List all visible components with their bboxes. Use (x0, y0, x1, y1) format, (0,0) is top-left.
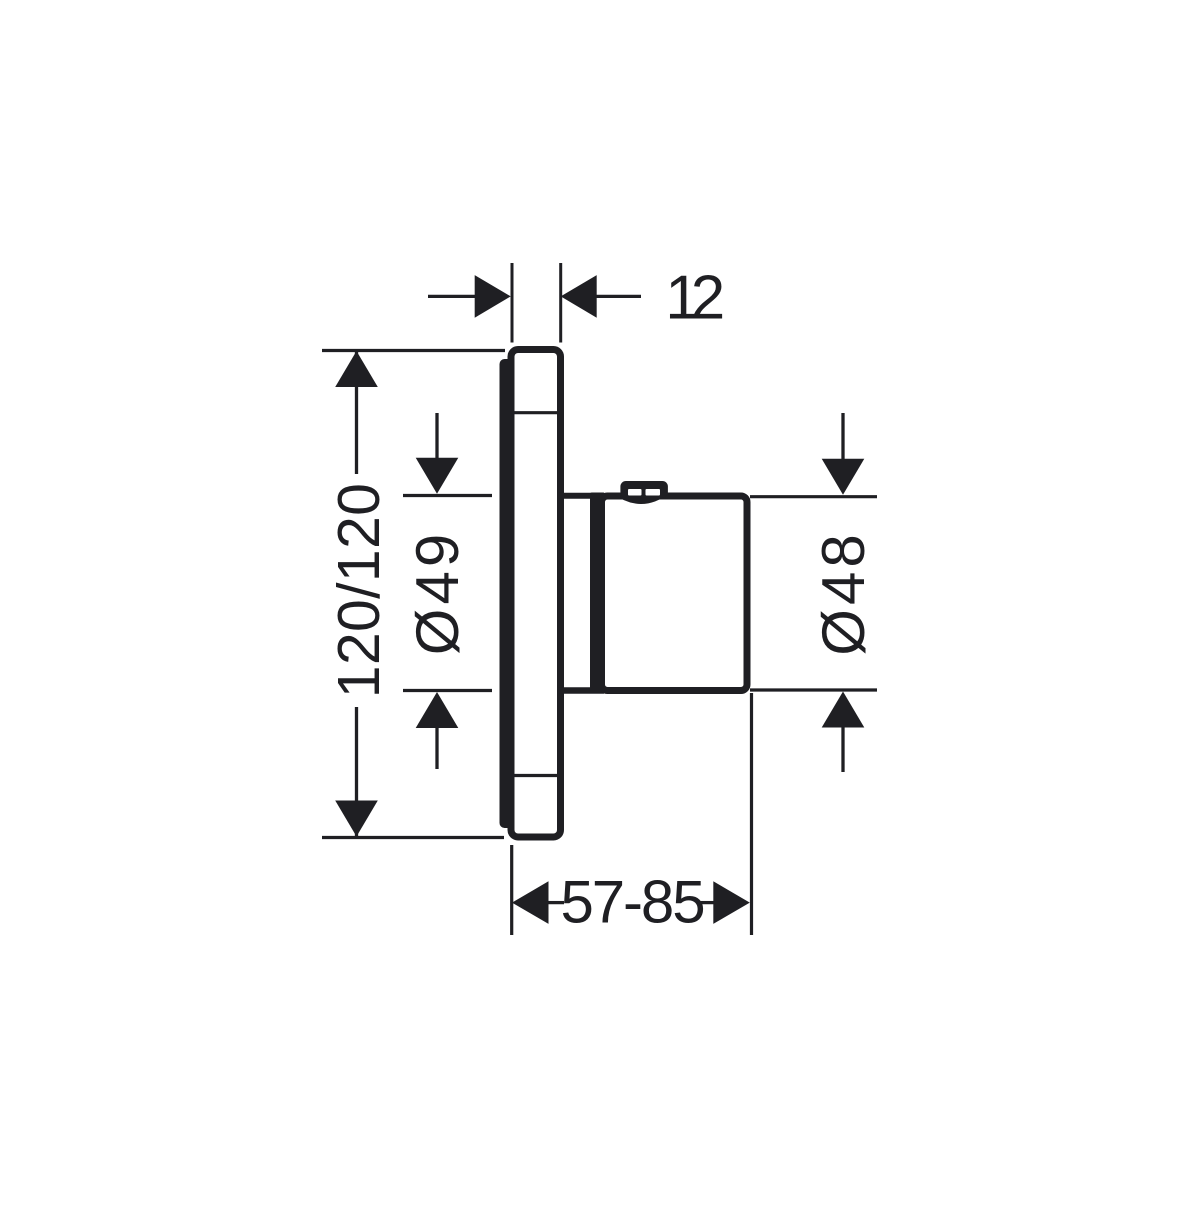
dim 120/120 line lower (355, 707, 358, 836)
dim D49 line upper (435, 413, 438, 460)
plate inner line top (514, 411, 558, 414)
ext line D48 top (750, 495, 877, 498)
dim 120/120 arrow down (335, 801, 378, 837)
dim 57-85 right stub (699, 901, 714, 904)
button tab (620, 481, 668, 498)
dim 57-85 arrow left (512, 881, 549, 924)
dim D48 line upper (841, 413, 844, 461)
dim 12 right arrow (561, 275, 597, 318)
extension line 12 right (559, 263, 562, 343)
knob top dip under button (612, 493, 670, 504)
svg-text:Ø49: Ø49 (404, 530, 471, 655)
svg-text:120/120: 120/120 (326, 483, 392, 698)
dim 12 right tail (596, 295, 641, 298)
dim D48 arrow up (822, 692, 865, 728)
sleeve bottom line (559, 687, 604, 694)
dim 120/120 line upper (355, 351, 358, 474)
dim 57-85 arrow right (713, 881, 750, 924)
dim D49 arrow up (416, 692, 459, 728)
dim 12 left tail (428, 295, 476, 298)
dim D49 arrow down (416, 458, 459, 494)
svg-text:Ø48: Ø48 (810, 530, 877, 655)
dim 12 left arrow (475, 275, 511, 318)
escutcheon plate outline (511, 350, 561, 838)
extension line 120/120 top (322, 349, 505, 352)
ext line D49 top (403, 494, 492, 497)
extension line 120/120 bottom (322, 836, 504, 839)
dim 120/120 arrow up (335, 351, 378, 387)
svg-text:57-85: 57-85 (561, 869, 704, 936)
plate inner line bottom (514, 774, 558, 777)
dim D48 arrow down (822, 459, 865, 495)
knob left face bar (590, 493, 605, 692)
escutcheon back strip (500, 359, 514, 828)
ext line D48 bottom (750, 688, 877, 691)
knob body (602, 496, 748, 691)
sleeve top line (559, 493, 604, 499)
ext line D49 bottom (403, 689, 492, 692)
dim 57-85 left stub (548, 901, 564, 904)
ext line 57-85 left (510, 845, 513, 935)
button window left (628, 489, 642, 496)
ext line 57-85 right (750, 693, 753, 935)
dim D48 line lower (841, 727, 844, 772)
dim D49 line lower (435, 727, 438, 769)
extension line 12 left (511, 263, 514, 343)
button window right (646, 489, 661, 496)
svg-text:2: 2 (691, 264, 725, 333)
